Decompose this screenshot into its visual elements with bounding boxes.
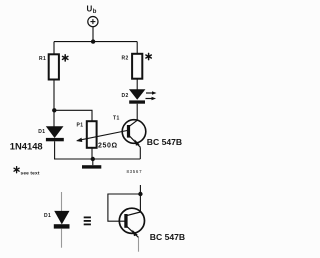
- resistor R1: [49, 54, 59, 79]
- svg-text:D2: D2: [122, 93, 129, 99]
- transistor T1: [122, 120, 146, 148]
- diode D1: [46, 127, 64, 142]
- svg-text:BC 547B: BC 547B: [147, 137, 182, 147]
- ground: [82, 159, 101, 169]
- wire D1 to ground rail: [54, 141, 56, 159]
- wire base loop of diode-connected transistor: [108, 194, 140, 221]
- wire D2 to T1 collector: [136, 104, 138, 121]
- svg-text:b: b: [93, 9, 97, 15]
- node top rail junction: [91, 39, 95, 43]
- svg-text:see text: see text: [21, 171, 40, 177]
- wire top rail to R1: [53, 42, 55, 55]
- resistor R2: [132, 54, 142, 79]
- wire T1 emitter to ground rail: [139, 147, 141, 159]
- svg-text:D1: D1: [38, 129, 45, 135]
- svg-text:D1: D1: [44, 213, 51, 219]
- wire top rail: [54, 41, 137, 43]
- svg-text:R2: R2: [122, 56, 129, 62]
- note asterisk see text: [14, 167, 40, 177]
- node collector-base tie: [138, 192, 142, 196]
- svg-text:83567: 83567: [127, 169, 143, 174]
- svg-text:T1: T1: [113, 116, 120, 122]
- svg-text:R1: R1: [39, 56, 46, 62]
- asterisk R2 value note: [146, 53, 151, 59]
- wire emitter lead of diode-connected transistor: [138, 237, 140, 251]
- supply terminal Ub: [88, 17, 98, 27]
- svg-text:1N4148: 1N4148: [10, 141, 43, 152]
- svg-text:250Ω: 250Ω: [98, 142, 118, 149]
- asterisk R1 value note: [63, 55, 68, 61]
- wire P1 bottom to ground rail: [91, 148, 93, 159]
- wire collector stub of diode-connected transistor: [139, 185, 141, 212]
- led D2: [129, 90, 156, 104]
- label Ub: [87, 5, 97, 16]
- node D1 / P1 junction: [52, 108, 56, 112]
- svg-text:P1: P1: [77, 122, 84, 128]
- svg-text:BC 547B: BC 547B: [150, 232, 185, 242]
- wire R1 to D1: [53, 80, 55, 127]
- equivalence symbol: [84, 217, 91, 224]
- wire top lead of equivalence diode D1: [61, 192, 63, 211]
- wire top rail to R2: [136, 42, 138, 54]
- wire bottom rail: [54, 158, 140, 160]
- svg-text:U: U: [87, 5, 93, 14]
- wire Ub to top rail: [92, 27, 94, 42]
- node ground junction: [91, 157, 95, 161]
- potentiometer P1: [76, 121, 127, 148]
- wire junction to P1 top: [54, 110, 92, 121]
- wire R2 to D2: [136, 79, 138, 90]
- transistor BC547B diode-connected: [119, 208, 144, 237]
- diode D1 equivalence symbol: [54, 211, 70, 228]
- wire bottom lead of equivalence diode D1: [61, 229, 63, 248]
